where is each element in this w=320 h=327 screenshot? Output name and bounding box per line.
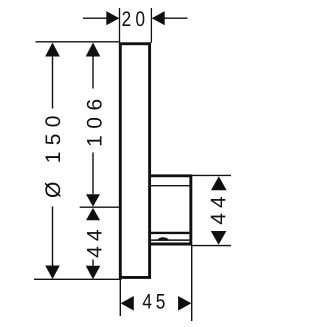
dim 44 left upper arrow [86, 208, 100, 220]
dim 45 left extension line [119, 280, 121, 317]
dim 150 line upper [52, 55, 54, 109]
dim 44 left text [87, 230, 101, 257]
dim 150 upper arrow [45, 43, 60, 57]
dim 20 right arrow + tail [164, 17, 188, 19]
extension line top-left (plate top) [36, 41, 121, 43]
housing inner thick line (bottom) [151, 232, 190, 234]
dim 20 right extension line [150, 8, 152, 43]
dim 45 right arrow [178, 296, 191, 311]
plate (escutcheon side view) [120, 44, 149, 278]
dim 44 right text [211, 197, 225, 224]
dim 150 lower arrow [45, 266, 60, 280]
dim 44 right bottom extension line [191, 245, 231, 247]
dim 106 line lower [92, 153, 94, 195]
dim 106 upper arrow [86, 43, 101, 57]
dim 44 right top extension line [191, 174, 231, 176]
dim 20 left arrow + tail [83, 17, 108, 19]
dim 150 text [45, 116, 61, 197]
dim 44 left line lower [92, 260, 94, 268]
cartridge housing outline: top, right, bottom [150, 176, 191, 244]
dim 20 left extension line [119, 8, 121, 43]
dim 45 text [143, 294, 165, 309]
dim 150 line lower [52, 207, 54, 267]
dim 106 lower arrow [86, 194, 100, 206]
extension line bottom-left (plate bottom) [34, 278, 122, 280]
dim 106 text [87, 100, 102, 146]
dim 20 text [122, 11, 144, 26]
housing lower line with bump [151, 239, 190, 241]
extension line mid-left (106/44 boundary) [80, 206, 119, 208]
housing inner thin line (top) [151, 185, 190, 187]
dim 45 right extension line [191, 246, 193, 321]
dim 44 right lower arrow [211, 231, 227, 245]
dim 44 left lower arrow [86, 266, 101, 280]
dim 106 line upper [92, 55, 94, 89]
dim 45 left arrow [121, 296, 134, 311]
dim 44 right upper arrow [211, 176, 227, 190]
